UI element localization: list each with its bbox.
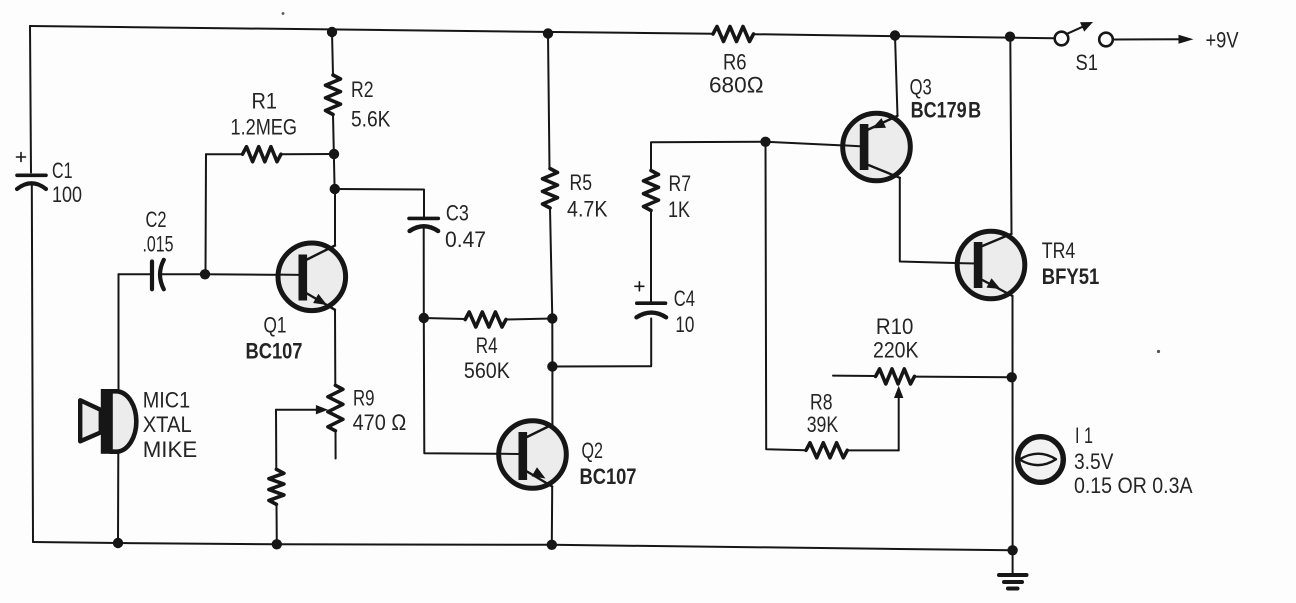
transistor Q2 [499, 421, 567, 489]
svg-text:+9V: +9V [1206, 28, 1239, 53]
svg-text:3.5V: 3.5V [1074, 449, 1114, 474]
wire R5 to nodes [550, 208, 552, 425]
paper speck [282, 12, 285, 15]
svg-text:R10: R10 [876, 314, 914, 339]
svg-text:1.2MEG: 1.2MEG [231, 115, 298, 140]
node R10-lamp column [1007, 372, 1017, 382]
svg-text:470 Ω: 470 Ω [353, 410, 407, 435]
svg-text:5.6K: 5.6K [351, 107, 391, 132]
wire C2 right to node [163, 273, 206, 275]
node bottom rail Q2 [547, 540, 557, 550]
capacitor C2 [152, 260, 164, 290]
svg-text:C1: C1 [52, 158, 73, 183]
svg-text:100: 100 [52, 182, 82, 207]
svg-text:XTAL: XTAL [143, 412, 192, 437]
node C2-Q1 base [200, 269, 210, 279]
wire Q2 emitter down [551, 487, 553, 545]
wire R8 to wiper corner [847, 449, 898, 451]
node Q2 collector-C4 [547, 361, 557, 371]
svg-text:BC107: BC107 [246, 339, 303, 364]
capacitor C4 [635, 282, 666, 318]
resistor R8 [806, 443, 847, 458]
transistor Q1 [278, 189, 346, 311]
node bottom rail mic [113, 538, 123, 548]
svg-text:1K: 1K [668, 197, 690, 222]
svg-text:Q3: Q3 [910, 75, 932, 100]
R10 wiper arrow [894, 386, 903, 451]
svg-text:R2: R2 [351, 77, 374, 102]
svg-text:R1: R1 [252, 89, 278, 114]
node C3-R4 [419, 313, 429, 323]
svg-text:BFY51: BFY51 [1042, 264, 1100, 289]
wire top rail right [754, 34, 1055, 38]
wire bottom rail [33, 542, 1013, 550]
wire R7 top to Q3 base [651, 142, 860, 171]
wire C4 to R7 [650, 211, 652, 302]
paper speck [1157, 350, 1160, 353]
transistor Q3 [843, 113, 911, 181]
ground [999, 550, 1027, 588]
wire left rail upper [30, 26, 31, 173]
svg-text:MIKE: MIKE [143, 437, 198, 462]
svg-text:C4: C4 [674, 286, 695, 311]
svg-text:560K: 560K [464, 358, 510, 383]
svg-text:I 1: I 1 [1075, 423, 1093, 448]
svg-text:39K: 39K [807, 412, 839, 437]
node R4-R5 [547, 313, 557, 323]
resistor R6 [713, 27, 754, 42]
wire wiper down to unlabeled resistor [275, 410, 277, 470]
node C3 branch [330, 184, 340, 194]
capacitor C3 [409, 218, 438, 231]
svg-text:R9: R9 [353, 385, 375, 410]
svg-text:R8: R8 [810, 390, 833, 415]
R9 wiper arrow [276, 405, 328, 414]
wire mic column upper [118, 274, 120, 390]
wire C3 branch horizontal [335, 189, 424, 217]
wire top rail left [30, 26, 713, 34]
potentiometer R9 [328, 385, 343, 431]
resistor unlabeled [269, 469, 284, 504]
wire mic column lower [117, 453, 119, 544]
wire C3 to R4 node [423, 228, 425, 318]
svg-text:TR4: TR4 [1042, 238, 1076, 263]
svg-text:BC179 B: BC179 B [911, 98, 982, 123]
svg-text:R6: R6 [723, 50, 747, 75]
wire Q3 collector down to TR4 base [900, 178, 974, 264]
resistor R10 [833, 369, 1012, 384]
svg-text:220K: 220K [873, 337, 919, 362]
svg-text:10: 10 [675, 312, 694, 337]
node bottom rail unlabeled resistor [272, 539, 282, 549]
wire to +9V arrow [1114, 38, 1185, 40]
wire node to Q1 base [205, 273, 299, 276]
node top rail TR4 [1005, 32, 1015, 42]
node bottom rail ground [1007, 545, 1017, 555]
wire Q3 emitter up [895, 36, 898, 116]
text labels part 1 [52, 28, 1239, 499]
resistor R2 [326, 32, 341, 189]
switch S1 [1055, 22, 1113, 46]
svg-text:S1: S1 [1076, 50, 1099, 75]
wire C3 column to Q2 base [424, 318, 519, 454]
wire TR4 collector up [1010, 37, 1011, 234]
svg-text:0.47: 0.47 [445, 227, 486, 252]
transistor TR4 [957, 231, 1025, 299]
svg-text:Q2: Q2 [582, 438, 604, 463]
node top rail R2 [327, 27, 337, 37]
svg-text:680Ω: 680Ω [709, 73, 764, 98]
wire C4 branch [552, 319, 651, 367]
lamp I1 [1018, 437, 1064, 483]
svg-text:C3: C3 [446, 200, 469, 225]
svg-text:BC107: BC107 [580, 464, 637, 489]
wire R8 left branch [766, 142, 807, 450]
svg-text:0.15 OR 0.3A: 0.15 OR 0.3A [1074, 473, 1193, 498]
wire R9 bottom stub [335, 431, 337, 459]
node top rail Q3 [890, 30, 900, 40]
junction nodes [113, 27, 1018, 556]
resistor R7 [644, 171, 659, 211]
resistor R1 [206, 147, 334, 162]
microphone MIC1 [80, 389, 136, 454]
wire Q1 emitter to R9 [334, 310, 336, 386]
capacitor C1 [17, 153, 47, 190]
svg-text:.015: .015 [143, 232, 174, 257]
wire R5 column top [548, 34, 550, 169]
svg-text:R4: R4 [476, 333, 498, 358]
wire C2 left [119, 273, 150, 275]
svg-text:C2: C2 [146, 207, 167, 232]
svg-text:R7: R7 [669, 171, 692, 196]
node R7-Q3 base [760, 137, 770, 147]
wire R1 branch vertical [205, 154, 208, 274]
svg-text:Q1: Q1 [264, 313, 287, 338]
svg-text:R5: R5 [570, 170, 593, 195]
node top rail R5 [543, 28, 553, 38]
resistor R5 [543, 169, 558, 209]
wire TR4 emitter down to ground node [1012, 296, 1014, 550]
wire unlabeled resistor to bottom rail [276, 504, 278, 544]
svg-text:MIC1: MIC1 [143, 388, 191, 413]
wire left rail lower [32, 183, 33, 542]
svg-text:4.7K: 4.7K [567, 197, 608, 222]
node R1-R2 junction [329, 149, 339, 159]
resistor R4 [424, 312, 553, 327]
